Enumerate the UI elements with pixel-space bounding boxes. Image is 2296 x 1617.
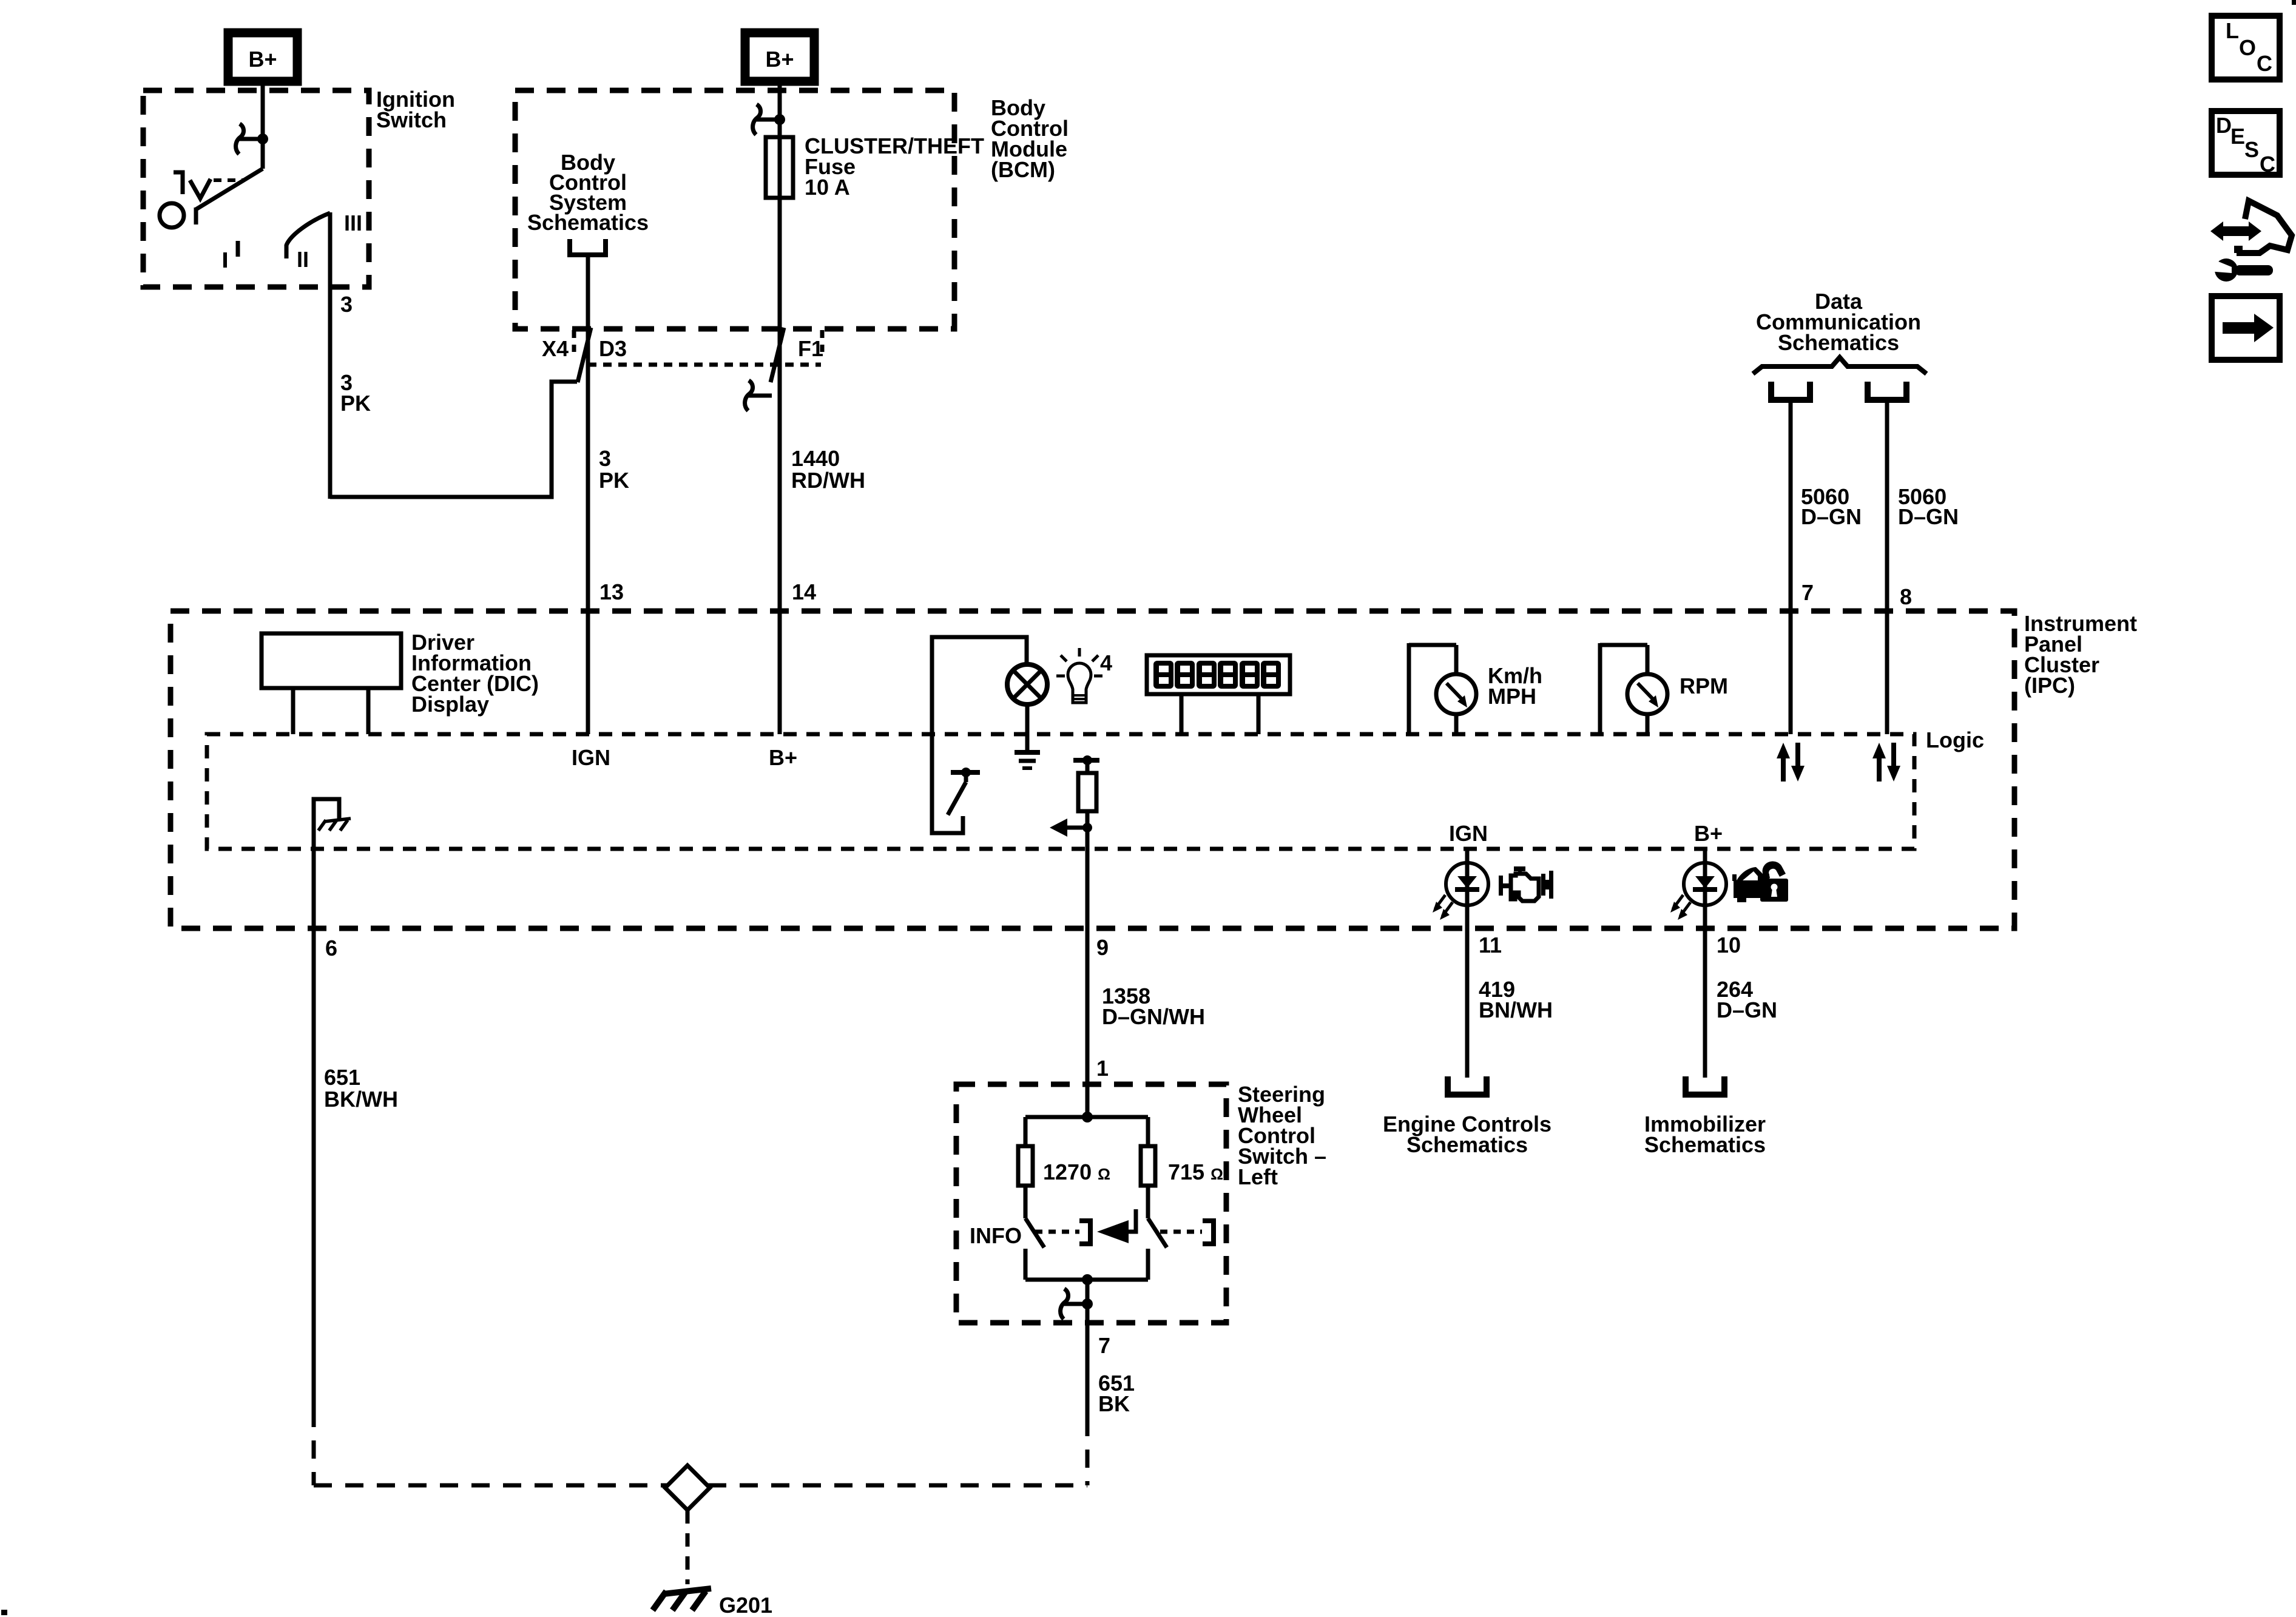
- svg-text:O: O: [2239, 35, 2256, 60]
- odometer seven segment display: [1147, 655, 1290, 694]
- resistor 1270 ohm: [1024, 1117, 1028, 1146]
- indicator lamp: [1007, 664, 1047, 704]
- off-page connector (serial data 1): [1771, 382, 1810, 400]
- brace: [1753, 357, 1926, 374]
- svg-text:F1: F1: [798, 336, 823, 361]
- serial data wire to pin 7: [1789, 398, 1793, 734]
- svg-text:C: C: [2257, 51, 2272, 76]
- svg-text:BN/WH: BN/WH: [1479, 998, 1553, 1022]
- serial data wire to pin 8: [1885, 398, 1889, 734]
- svg-text:14: 14: [792, 579, 816, 604]
- svg-text:L: L: [2226, 18, 2239, 43]
- steering wheel control switch box: [956, 1084, 1226, 1323]
- svg-text:INFO: INFO: [970, 1223, 1022, 1248]
- svg-text:MPH: MPH: [1488, 684, 1536, 709]
- svg-text:Schematics: Schematics: [527, 210, 649, 235]
- indicator lamp loop: [932, 637, 1027, 833]
- svg-text:RD/WH: RD/WH: [791, 468, 865, 493]
- svg-text:Schematics: Schematics: [1778, 330, 1899, 355]
- body control module BCM box: [515, 90, 954, 329]
- bottom branch wire: [1025, 1278, 1148, 1282]
- svg-text:X4: X4: [542, 336, 569, 361]
- svg-text:6: 6: [325, 936, 337, 960]
- DIC display legs: [291, 688, 295, 734]
- off-page connector (serial data 2): [1868, 382, 1906, 400]
- vehicle with padlock icon: [1732, 861, 1788, 902]
- svg-text:10: 10: [1717, 933, 1741, 957]
- wire jog to BCM connector D3: [330, 382, 577, 497]
- linkage dashes and actuators: [1035, 1230, 1079, 1234]
- position I tick and label: [236, 241, 240, 257]
- key symbol: [174, 172, 183, 194]
- svg-text:13: 13: [599, 579, 624, 604]
- connector X4 dashed boundary: [588, 363, 821, 367]
- svg-text:9: 9: [1096, 935, 1109, 960]
- internal connector bracket: [570, 239, 606, 255]
- position II contact tick: [285, 245, 289, 258]
- junction dot: [257, 133, 268, 144]
- svg-text:(BCM): (BCM): [991, 157, 1055, 182]
- chassis ground inside IPC: [325, 819, 351, 822]
- svg-text:II: II: [297, 247, 309, 272]
- svg-text:IGN: IGN: [572, 745, 610, 770]
- connector clip at ignition switch feed: [236, 124, 244, 154]
- svg-text:3: 3: [599, 446, 611, 471]
- parallel resistor branch wires: [1082, 1112, 1093, 1122]
- position arc to III: [286, 213, 330, 245]
- reference icon DESC: [2212, 111, 2280, 175]
- wire from B+ through CLUSTER/THEFT fuse: [778, 81, 782, 734]
- svg-text:BK: BK: [1098, 1391, 1130, 1416]
- next-page arrow icon: [2212, 296, 2280, 360]
- svg-text:G201: G201: [719, 1593, 772, 1617]
- wire B+ into ignition switch: [261, 81, 265, 169]
- svg-text:D3: D3: [599, 336, 627, 361]
- IPC internal ground wire (pin 6): [314, 799, 339, 1409]
- off-page connector to immobilizer: [1686, 1076, 1724, 1095]
- svg-text:4: 4: [1100, 650, 1112, 675]
- ground distribution dashed wires: [312, 1409, 316, 1485]
- ignition switch blade: [196, 169, 263, 209]
- logic box inside IPC: [207, 734, 1914, 849]
- svg-text:7: 7: [1098, 1333, 1110, 1358]
- svg-text:Display: Display: [411, 692, 489, 717]
- wire to pin 7 with clip: [1086, 1280, 1090, 1418]
- power symbol B+ (ignition feed): [228, 33, 297, 81]
- off-page connector to engine controls: [1448, 1076, 1487, 1095]
- svg-text:3: 3: [340, 292, 353, 317]
- svg-text:D–GN: D–GN: [1801, 504, 1862, 529]
- connector pass-through slash at D3: [578, 328, 591, 382]
- svg-text:BK/WH: BK/WH: [324, 1087, 398, 1112]
- svg-text:8: 8: [1900, 584, 1912, 609]
- dimmer switch inside logic: [951, 770, 980, 775]
- ignition switch box: [143, 90, 369, 287]
- reference icon LOC: [2212, 16, 2280, 79]
- instrument panel cluster IPC box: [171, 611, 2014, 928]
- lamp wire to ground: [1025, 704, 1030, 751]
- svg-text:D: D: [2216, 113, 2232, 138]
- svg-text:651: 651: [324, 1065, 360, 1090]
- svg-text:B+: B+: [1694, 821, 1723, 846]
- splice diamond S-connector: [665, 1465, 710, 1510]
- info switch resistor with wiper arrow: [1073, 758, 1099, 763]
- ground G201: [664, 1588, 711, 1594]
- svg-text:B+: B+: [248, 47, 277, 72]
- svg-text:PK: PK: [599, 468, 629, 493]
- engine icon: [1499, 866, 1553, 901]
- switch right: [1146, 1186, 1150, 1218]
- svg-text:(IPC): (IPC): [2024, 673, 2075, 698]
- svg-text:1: 1: [1096, 1056, 1109, 1081]
- svg-text:III: III: [344, 211, 362, 235]
- wire from BCM internal to pin D3 and down to IPC pin 13: [586, 255, 590, 734]
- bidirectional data arrows: [1781, 756, 1786, 781]
- svg-text:D–GN/WH: D–GN/WH: [1102, 1004, 1205, 1029]
- svg-text:7: 7: [1801, 580, 1814, 605]
- connector clip at BCM feed: [753, 104, 761, 135]
- svg-text:Logic: Logic: [1926, 727, 1984, 752]
- connector pass-through slash at F1: [771, 328, 784, 382]
- svg-text:IGN: IGN: [1449, 821, 1488, 846]
- svg-text:11: 11: [1479, 933, 1502, 957]
- svg-text:RPM: RPM: [1680, 673, 1728, 698]
- tachometer gauge RPM: [1600, 643, 1647, 647]
- svg-text:PK: PK: [340, 391, 371, 416]
- svg-text:B+: B+: [765, 47, 794, 72]
- svg-text:E: E: [2230, 124, 2245, 149]
- service direction icon (arrow + wrench): [2208, 201, 2292, 282]
- svg-text:C: C: [2260, 152, 2275, 177]
- svg-text:Schematics: Schematics: [1644, 1132, 1766, 1157]
- display legs: [1180, 694, 1184, 734]
- svg-text:D–GN: D–GN: [1717, 998, 1777, 1022]
- svg-text:10 A: 10 A: [805, 175, 850, 200]
- DIC display module: [262, 633, 401, 688]
- bulb icon with rays, qty 4: [1068, 663, 1091, 703]
- earth ground under lamp: [1015, 750, 1040, 755]
- svg-text:D–GN: D–GN: [1898, 504, 1959, 529]
- svg-text:Schematics: Schematics: [1406, 1132, 1528, 1157]
- connector clip below F1: [745, 380, 753, 411]
- speedometer gauge Km/h MPH: [1409, 643, 1456, 647]
- svg-text:Left: Left: [1238, 1164, 1278, 1189]
- svg-text:1440: 1440: [791, 446, 840, 471]
- power symbol B+ (BCM feed): [745, 33, 814, 81]
- fuse CLUSTER/THEFT 10 A: [766, 137, 793, 198]
- svg-text:S: S: [2244, 137, 2259, 162]
- key circle terminal: [160, 203, 184, 228]
- resistor 715 ohm: [1146, 1117, 1150, 1146]
- page artifact specks: [2292, 0, 2296, 5]
- svg-text:B+: B+: [769, 745, 797, 770]
- wire from III contact (circuit 3): [328, 212, 333, 499]
- svg-text:Switch: Switch: [376, 107, 447, 132]
